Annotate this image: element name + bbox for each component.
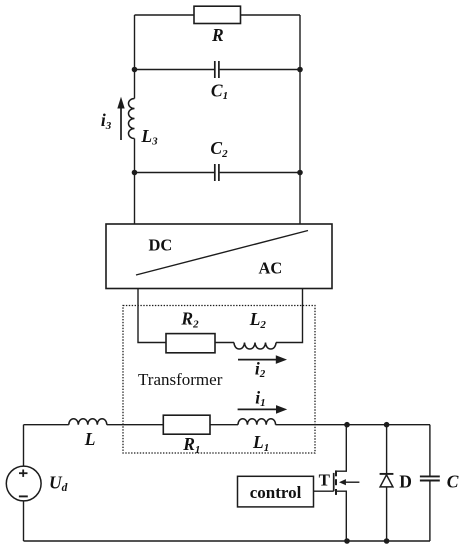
wire top row right [241,14,301,16]
wire left rail lower [134,139,136,225]
wire top row left [135,14,195,16]
inductor L3 [129,99,135,139]
wire diode top lead [386,425,388,474]
wire mosfet source [337,491,347,541]
wire capacitor C bottom lead [429,481,431,541]
capacitor C [420,476,440,480]
wire diode bottom lead [386,487,388,541]
svg-text:R1: R1 [182,434,200,456]
current arrow i2 [238,355,287,364]
wire L1 to right corner [276,424,431,426]
capacitor C2 [215,164,219,181]
transformer dotted box [123,306,315,454]
wire mosfet drain [337,425,346,472]
channel bar body [335,479,337,485]
svg-text:L3: L3 [140,126,158,148]
wire R2 to L2 [215,342,234,344]
svg-text:R: R [211,25,224,45]
wire C2 row left [135,172,215,174]
wire right rail [299,15,301,224]
svg-text:C1: C1 [211,80,228,102]
svg-text:L2: L2 [249,309,267,331]
node dot C1 left [132,67,138,73]
control box [238,476,314,507]
body arrow shaft [345,481,360,483]
node dot bottom D [384,538,390,544]
channel bar drain [335,470,337,476]
wire capacitor C top lead [429,425,431,476]
gate bar [333,473,335,491]
body arrow head [339,479,346,485]
wire C1 row right [220,69,300,71]
transistor T (MOSFET) [314,470,360,495]
svg-text:Transformer: Transformer [138,370,223,389]
resistor R2 [166,334,215,353]
wire source top lead [23,425,25,467]
DC/AC diagonal [136,231,308,276]
wire L2 to DC/AC right [276,289,303,343]
inductor L2 [234,343,276,350]
node dot bottom T [344,538,350,544]
svg-text:DC: DC [149,236,173,255]
wire C1 row left [135,69,215,71]
node dot top D [384,422,390,428]
node dot C2 left [132,170,138,176]
svg-text:D: D [399,472,412,492]
wire left rail upper [134,15,136,99]
inductor L [69,419,107,425]
svg-text:Ud: Ud [49,472,68,494]
svg-text:L1: L1 [252,432,269,454]
wire R1 to L1 [210,424,238,426]
svg-text:control: control [250,483,302,502]
svg-text:C: C [447,472,459,492]
source plus sign [19,470,28,477]
source minus sign [19,495,28,497]
svg-text:T: T [319,470,331,489]
wire primary left [24,424,69,426]
node dot C1 right [297,67,303,73]
node dot C2 right [297,170,303,176]
current arrow i1 [238,405,288,414]
wire L to R1 [107,424,164,426]
capacitor C1 [215,61,219,78]
svg-text:C2: C2 [210,138,228,160]
wire source bottom lead [23,501,25,541]
wire C2 row right [220,172,300,174]
svg-text:AC: AC [259,259,283,278]
resistor R [194,6,241,23]
wire DC/AC to transformer left [138,289,166,343]
diode D [380,474,394,487]
resistor R1 [163,415,210,434]
current arrow i3 [117,97,124,140]
svg-text:L: L [84,429,96,449]
channel bar source [335,489,337,495]
svg-text:i1: i1 [255,387,265,409]
svg-text:R2: R2 [180,309,199,331]
voltage source Ud [6,466,41,501]
gate lead [314,490,334,492]
inductor L1 [238,419,276,425]
svg-text:i2: i2 [255,358,266,380]
node dot top T [344,422,350,428]
wire bottom rail [24,540,431,542]
svg-text:i3: i3 [101,110,112,132]
DC/AC converter box [106,224,332,289]
